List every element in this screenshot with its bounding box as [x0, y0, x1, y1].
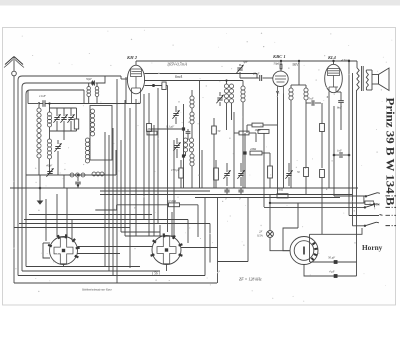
tube KL4 electrodes — [328, 69, 340, 92]
IF coil stack b — [190, 108, 194, 124]
wire stub 64 — [63, 175, 65, 188]
rectifier socket inner — [294, 241, 314, 261]
svg-text:8nF: 8nF — [337, 106, 342, 110]
IF coil stack a — [190, 90, 194, 108]
trimmer IF1a — [172, 106, 179, 124]
wire bus 3 top — [86, 76, 105, 86]
wire switch lead b — [108, 135, 110, 271]
wire pot drop — [148, 93, 150, 236]
trimmer C3 — [67, 108, 74, 131]
IF coil stack c — [183, 124, 193, 156]
wire switch lead k — [167, 86, 169, 233]
wire coil block bottom — [50, 131, 77, 140]
svg-text:150 pF: 150 pF — [171, 168, 180, 172]
wire bus 3 vertical — [22, 83, 91, 271]
twin coupling coils — [87, 83, 99, 104]
svg-text:KL4: KL4 — [327, 55, 337, 60]
speaker — [372, 68, 389, 91]
wafer S2 top feeds — [160, 212, 172, 236]
wire rail B2 — [100, 190, 210, 192]
tube KH2 envelope — [127, 65, 144, 94]
wire corner 188 — [187, 220, 189, 244]
wire right h 207 — [264, 206, 365, 208]
svg-text:ZF = 128 kHz: ZF = 128 kHz — [239, 277, 262, 282]
wire main rail A — [10, 187, 358, 189]
wire wafer1 feed a — [56, 194, 58, 237]
wire box top — [310, 228, 363, 234]
wire switch lead a — [104, 132, 106, 267]
wire bus 2 vertical — [18, 76, 128, 276]
svg-text:x: x — [327, 95, 329, 99]
wire padder drop — [115, 150, 117, 175]
wire cathode lead — [135, 99, 137, 236]
wafer S2 arm — [181, 247, 218, 249]
svg-text:( 56 ): ( 56 ) — [152, 272, 161, 276]
resistor KL4 bias — [320, 170, 325, 235]
tube KBC1 electrodes — [275, 76, 286, 94]
antenna coil L1 — [37, 102, 41, 158]
label KBC1 — [272, 54, 286, 59]
trimmer IF2 — [216, 92, 223, 106]
resistor 150 — [364, 196, 381, 207]
chassis line 1 — [386, 195, 397, 197]
wire IF1 left — [183, 104, 185, 188]
tube KL4 envelope — [325, 64, 343, 92]
tube KBC1 envelope — [273, 71, 288, 86]
wire band h3 — [19, 223, 210, 225]
tube KH2 electrodes — [131, 69, 142, 104]
wire mid v264 — [263, 133, 265, 207]
trimmer C2 — [60, 108, 67, 131]
wire mid v3 — [255, 133, 257, 142]
trimcap Cv2 — [237, 163, 244, 186]
wire bus 2 bottom — [18, 275, 205, 277]
coil L2b — [47, 127, 51, 173]
resistor Rv2 — [268, 160, 273, 188]
IF coil stack d — [190, 152, 194, 188]
coil L2a — [47, 102, 51, 127]
cap 4uF — [304, 265, 357, 278]
wire 90V drop — [298, 60, 300, 85]
cap 5nF — [306, 97, 321, 106]
resistor screen — [297, 168, 308, 195]
output transformer secondary — [366, 72, 368, 88]
wire rail3 — [144, 81, 243, 87]
wafer S1 stub — [43, 243, 50, 258]
wire transformer down — [356, 90, 358, 276]
cap 50uF — [310, 256, 357, 264]
cap between rails a — [224, 188, 229, 201]
antenna symbol — [4, 57, 24, 68]
wire screen rail 6mA — [145, 74, 258, 79]
wire grid drop — [125, 77, 127, 104]
tube KL4 top cap — [332, 60, 334, 65]
wire L1 to ground — [38, 158, 40, 175]
output transformer core — [362, 66, 364, 91]
cap 50pF — [274, 62, 282, 70]
wire padder line — [26, 174, 116, 176]
cap 1nF — [333, 149, 351, 159]
wire switch lead f — [124, 100, 126, 236]
resistor 5k — [277, 188, 288, 198]
svg-text:6mA: 6mA — [175, 74, 183, 79]
wire KBC legs down — [278, 94, 284, 195]
svg-text:Siebkreiseinsatz nur Kurz: Siebkreiseinsatz nur Kurz — [82, 288, 112, 292]
wire switch lead l — [173, 140, 175, 236]
wire KL4 cathode — [328, 92, 330, 188]
cap IF small — [186, 129, 191, 140]
rectifier pins — [311, 243, 317, 260]
wire right v1 — [333, 106, 335, 196]
wire right h 203 — [269, 202, 365, 204]
svg-text:Horny: Horny — [362, 243, 383, 252]
svg-text:25nF: 25nF — [253, 72, 260, 76]
label Siebkreis — [82, 288, 112, 292]
wire bus 3 bottom — [22, 270, 160, 272]
cap 25nF — [253, 72, 262, 82]
svg-text:50pF: 50pF — [86, 78, 92, 81]
switch contact 2 — [364, 204, 379, 209]
wire band h8 — [121, 231, 160, 233]
wire right h 215 — [349, 215, 379, 217]
wire to 11nF — [28, 90, 140, 104]
wire right v2 — [348, 60, 350, 216]
wire bottom bus 1 — [14, 282, 217, 284]
label ZF — [239, 277, 262, 282]
wire switch lead d — [116, 79, 118, 283]
coil L3 — [90, 109, 94, 136]
switch contact 1 — [334, 193, 380, 198]
wire switch lead i — [153, 125, 155, 236]
wire bottom h262 — [218, 198, 249, 284]
wire bottom link — [204, 198, 206, 276]
wire switch lead e — [120, 140, 122, 232]
wire right v3 — [352, 73, 354, 226]
volume potentiometer — [147, 124, 152, 132]
rectifier filament — [303, 247, 305, 255]
wafer S2 bottom — [166, 265, 168, 272]
band switch wafer S1 — [48, 234, 80, 264]
trimmer C5 padder — [46, 164, 54, 177]
svg-text:4 μF: 4 μF — [329, 270, 335, 274]
resistor 2M — [250, 147, 270, 160]
top scanner strip — [0, 0, 400, 6]
cap 8nF — [336, 92, 344, 130]
wire IF1 right — [199, 81, 201, 189]
svg-text:2MΩ: 2MΩ — [250, 147, 257, 151]
trimmer IF1b — [173, 138, 180, 158]
wire KBC top — [280, 60, 282, 71]
coil IF3b — [289, 85, 293, 188]
svg-text:5pF: 5pF — [243, 60, 248, 64]
svg-text:1MΩ: 1MΩ — [146, 127, 153, 131]
resistor KL4 grid — [320, 103, 325, 168]
svg-text:90V: 90V — [293, 63, 300, 67]
label 165V — [167, 62, 187, 68]
svg-text:40pF: 40pF — [46, 164, 52, 168]
svg-text:0,5MΩ: 0,5MΩ — [168, 199, 176, 203]
wire band h1 — [29, 214, 152, 216]
cap between rails b — [238, 188, 243, 201]
wire coil block top — [50, 107, 77, 109]
wire mid v269 — [269, 194, 271, 204]
wire switch lead h — [143, 94, 145, 220]
label 01uF — [166, 125, 174, 130]
wire band h4 — [14, 227, 130, 229]
wire switch lead c — [112, 128, 114, 276]
wire bus 4 bottom — [26, 266, 140, 268]
resistor top b — [234, 131, 256, 135]
resistor R1 — [74, 108, 78, 131]
svg-text:50pF: 50pF — [274, 62, 281, 66]
wire band h2 — [24, 219, 188, 221]
wire wafer1 feed c — [71, 220, 73, 241]
label Horny — [362, 243, 383, 252]
wire wafer1 feed d — [45, 199, 47, 241]
label 90V — [293, 63, 300, 67]
wire bus 4 vertical — [26, 90, 84, 267]
resistor Rv1 — [214, 160, 219, 188]
label 150pF — [171, 168, 180, 172]
output transformer primary — [357, 61, 359, 90]
svg-text:1nF: 1nF — [337, 149, 342, 153]
wire mid v2 — [244, 133, 246, 188]
wire main rail C — [195, 197, 340, 199]
band switch wafer S2 — [151, 233, 183, 264]
chassis line 2 — [386, 206, 397, 208]
chassis line 3 — [380, 214, 397, 217]
resistor mid 50k — [212, 118, 221, 188]
resistor grid KH2 — [162, 82, 168, 90]
wire switch lead j — [157, 88, 159, 223]
label 45mA — [341, 58, 351, 63]
wire fuse top — [269, 203, 271, 231]
pin mark x — [327, 95, 329, 99]
wire band h9 — [125, 235, 174, 237]
wire psu top feed — [283, 203, 298, 251]
coil L4 tap — [70, 173, 85, 188]
junction IF1 — [152, 127, 185, 130]
wire wafer link — [78, 247, 153, 254]
svg-text:50 μF: 50 μF — [328, 256, 335, 260]
resistor 1M a — [146, 127, 157, 135]
rectifier chord — [309, 234, 311, 262]
wire switch lead g — [129, 108, 131, 268]
wire KBC grid — [240, 77, 273, 79]
wire wafer2 drop — [209, 224, 211, 263]
label KH2 — [126, 55, 138, 60]
switch contact 3 — [353, 222, 379, 227]
wire speaker bottom — [366, 84, 372, 90]
wire IF3 link — [291, 84, 306, 86]
coil IF2a — [224, 79, 228, 130]
svg-text:11nF: 11nF — [39, 94, 47, 98]
ground — [37, 175, 44, 205]
tube KH2 grid lead — [145, 84, 162, 87]
svg-text:5nF: 5nF — [309, 97, 314, 101]
junction IF2 — [182, 154, 185, 157]
rectifier socket outer — [290, 237, 318, 265]
coil IF3a — [241, 86, 245, 188]
coil L3b — [85, 138, 89, 163]
label 56 — [152, 272, 161, 276]
svg-text:Prinz 39 B W 134 B: Prinz 39 B W 134 B — [384, 98, 396, 206]
wire antenna lead — [13, 57, 15, 284]
wire psu v — [297, 203, 299, 207]
wire fuse bottom — [270, 237, 290, 250]
wire speaker top — [366, 70, 372, 75]
fuse — [267, 231, 274, 238]
svg-text:KH 2: KH 2 — [126, 55, 138, 60]
wire mid v202 — [201, 150, 203, 188]
trimcap Cv1 — [223, 163, 230, 186]
wire anode rail 165V — [136, 60, 357, 62]
capacitor 11nF — [39, 94, 47, 107]
trimmer C1 — [53, 108, 60, 131]
wire wafer1 feed b — [66, 188, 68, 237]
coil L5 — [92, 172, 104, 176]
label fuse — [257, 230, 263, 239]
trimmer C4 — [54, 140, 61, 175]
label 6mA — [175, 74, 183, 79]
scan speckle — [13, 30, 392, 302]
coil IF2b — [229, 84, 233, 120]
frame coil box — [90, 106, 112, 161]
resistor top c — [258, 130, 269, 134]
wire mid v1 — [233, 112, 235, 188]
svg-text:KBC 1: KBC 1 — [272, 54, 286, 59]
wire main rail B — [100, 194, 352, 196]
label 1M2 — [255, 128, 261, 132]
resistor KBC leak — [247, 123, 278, 133]
chassis line 4 — [386, 225, 397, 227]
resistor IF1c — [179, 160, 183, 188]
resistor 05M — [95, 199, 198, 237]
wafer1 bottom stub — [63, 265, 65, 267]
antenna series capacitor — [12, 71, 17, 76]
tube KH2 top cap — [135, 61, 137, 65]
trimmer KBC in — [236, 60, 247, 78]
trimcap Cv3 — [285, 163, 292, 186]
title Prinz 39 B W 134 B — [384, 98, 396, 206]
coil IF3c — [304, 85, 308, 167]
label KL4 — [327, 55, 337, 60]
junction mid — [243, 151, 246, 154]
